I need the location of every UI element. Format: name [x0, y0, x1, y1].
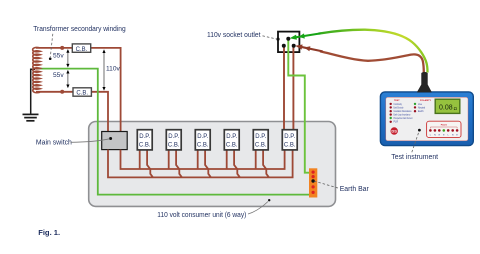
svg-text:Earth Bar: Earth Bar	[340, 186, 370, 193]
test lead green from socket to instrument plug	[319, 30, 428, 73]
main switch	[102, 132, 128, 150]
wire: DP CB3 taps	[197, 150, 199, 169]
junction dot bottom winding	[60, 90, 64, 94]
svg-text:D.P.: D.P.	[168, 134, 179, 140]
pointer dashed to socket	[263, 36, 277, 39]
wire: DP CB1 taps	[139, 150, 141, 169]
svg-text:C.B.: C.B.	[226, 142, 238, 148]
instrument plug socket indicator box	[427, 121, 461, 137]
instrument panel	[386, 97, 468, 141]
dimension arrow 55v bottom	[66, 70, 69, 88]
consumer unit enclosure	[89, 122, 336, 207]
transformer T1 secondary winding coil	[33, 47, 40, 92]
wire: DP CB4 taps	[226, 150, 228, 169]
svg-text:D.P.: D.P.	[226, 134, 237, 140]
instrument plug	[417, 72, 432, 93]
pointer line to main switch	[71, 139, 110, 143]
svg-text:110v: 110v	[106, 66, 121, 73]
svg-text:C.B.: C.B.	[76, 47, 88, 53]
svg-text:D.P.: D.P.	[139, 134, 150, 140]
svg-text:Earth Electrode: Earth Electrode	[394, 106, 404, 109]
svg-text:110v socket outlet: 110v socket outlet	[207, 32, 261, 39]
wire: socket outlet line drop left	[283, 46, 285, 131]
wire: main switch to lower busbar	[108, 150, 293, 178]
wire: socket outlet line drop right	[292, 46, 294, 131]
breaker DP CB5	[253, 130, 268, 150]
svg-text:Main switch: Main switch	[36, 140, 72, 147]
svg-text:C.B.: C.B.	[76, 91, 88, 97]
svg-text:Test instrument: Test instrument	[391, 154, 438, 161]
dimension arrow 55v top	[66, 49, 69, 67]
svg-text:DS: DS	[391, 129, 397, 134]
svg-text:55v: 55v	[53, 72, 64, 79]
breaker DP CB4	[224, 130, 239, 150]
pointer dashed to earth bar	[315, 181, 339, 188]
svg-text:Fig. 1.: Fig. 1.	[38, 228, 60, 237]
breaker DP CB1	[137, 130, 152, 150]
test lead red from socket to instrument plug	[320, 51, 424, 73]
pointer to consumer unit	[248, 202, 268, 215]
breaker DP CB2	[166, 130, 181, 150]
svg-text:D.P.: D.P.	[284, 134, 295, 140]
svg-text:PLR: PLR	[394, 122, 399, 124]
red lead clip at socket	[295, 45, 322, 52]
svg-text:D.P.: D.P.	[197, 134, 208, 140]
svg-text:Earth Loop Impedance: Earth Loop Impedance	[394, 114, 412, 117]
earth bar	[309, 168, 317, 197]
svg-text:0.08: 0.08	[439, 105, 453, 112]
socket outlet terminals	[276, 37, 295, 48]
svg-text:Continuity: Continuity	[394, 103, 403, 106]
instrument logo	[391, 127, 398, 134]
pointer dashed to instrument	[412, 132, 419, 153]
circuit breaker CB2	[73, 88, 91, 97]
svg-text:D.P.: D.P.	[255, 134, 266, 140]
wire: DP CB5 taps	[255, 150, 257, 169]
svg-text:TEST: TEST	[394, 100, 400, 102]
pointer dot on instrument	[418, 129, 421, 132]
ground symbol	[23, 114, 39, 120]
pointer dashed to winding	[50, 34, 53, 57]
circuit breaker CB1	[72, 44, 90, 53]
svg-text:PLUG: PLUG	[441, 124, 447, 126]
breaker DP CB3	[195, 130, 210, 150]
svg-text:C.B.: C.B.	[168, 142, 180, 148]
svg-text:Insulation Resistance: Insulation Resistance	[394, 110, 413, 113]
test instrument body	[380, 92, 473, 146]
svg-text:Earth: Earth	[418, 110, 424, 113]
wire: main switch to upper busbar	[121, 150, 285, 169]
wire: black centre tap to ground	[31, 69, 35, 114]
wire: green centre tap earth to consumer unit bottom and earth bar	[38, 69, 310, 195]
svg-text:Neutral: Neutral	[418, 106, 425, 109]
svg-text:110 volt consumer unit (6 way): 110 volt consumer unit (6 way)	[157, 212, 246, 219]
breaker tap wires	[140, 150, 269, 178]
svg-text:Prospective Fault Current: Prospective Fault Current	[394, 117, 413, 120]
svg-text:55v: 55v	[53, 52, 64, 59]
svg-text:C.B.: C.B.	[255, 142, 267, 148]
wire: transformer top terminal to CB1 and down to main switch	[36, 48, 121, 132]
green lead clip at socket	[290, 33, 321, 39]
dimension arrow 110v	[102, 49, 105, 90]
wire: transformer bottom terminal to CB2 and down to main switch	[36, 92, 108, 132]
junction dot top winding	[60, 46, 64, 50]
svg-text:C.B.: C.B.	[197, 142, 209, 148]
wire: DP CB2 taps	[168, 150, 170, 169]
svg-text:Transformer secondary winding: Transformer secondary winding	[33, 26, 126, 33]
110v socket outlet box	[278, 32, 299, 52]
LCD display 0.08 ohm	[435, 99, 460, 113]
svg-text:POLARITY: POLARITY	[420, 99, 432, 102]
wire: green earth drop from socket to earth bar	[288, 39, 310, 173]
breaker DP CB6	[282, 130, 297, 150]
svg-text:C.B.: C.B.	[284, 142, 296, 148]
svg-text:C.B.: C.B.	[139, 142, 151, 148]
